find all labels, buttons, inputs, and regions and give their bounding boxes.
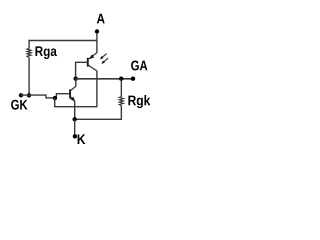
terminal A (node dot) [95,29,99,33]
light arrow 1 [100,54,107,60]
wire GA horizontal [76,78,133,80]
wire base stub to Q2 [56,94,69,98]
transistor Q1 emitter diagonal [89,53,97,59]
wire GK horizontal with jog to feedback node [21,95,55,98]
wire K vertical [74,119,76,136]
junction GK/feedback node [53,96,57,100]
transistor Q1 emitter arrowhead (PNP, points to bar) [89,54,94,59]
wire Rgk branch upper [120,79,122,97]
wire Q2 collector vertical [75,79,77,87]
resistor Rga (zigzag) [27,49,31,58]
wire left vertical upper segment [28,40,30,49]
junction Rga/GK [27,93,31,97]
label K [78,134,86,144]
transistor Q2 base bar [69,89,71,98]
wire feedback path Q1 collector to GK node [55,71,97,107]
junction K node [73,117,77,121]
transistor Q2 emitter arrowhead (NPN, points out) [70,97,75,102]
wire left vertical lower segment to GK line [28,58,30,96]
transistor Q1 base bar [87,58,89,67]
terminal GA (node dot) [131,77,135,81]
label GK [11,100,27,110]
terminal K (node dot) [73,134,77,138]
junction GA/Rgk [119,77,123,81]
label A [97,14,105,24]
wire Rgk branch lower and bottom horizontal to K node [75,106,122,120]
label Rgk [128,95,150,108]
wire top horizontal from A to left branch [29,40,98,42]
light arrow 2 [101,58,108,64]
transistor Q2 emitter diagonal [71,97,75,101]
wire Q2 emitter vertical to K line [74,101,76,119]
junction Q1 base / Q2 collector / GA [74,77,78,81]
label Rga [36,46,57,59]
label GA [131,61,147,71]
terminal GK (node dot) [19,93,23,97]
transistor Q1 (PNP) collector diagonal [88,65,97,71]
wire Q1 base horizontal and vertical down [76,62,88,78]
transistor Q2 (NPN) collector diagonal [71,86,76,90]
wire A vertical down to Q1 emitter [96,33,98,53]
resistor Rgk (zigzag) [119,97,123,106]
